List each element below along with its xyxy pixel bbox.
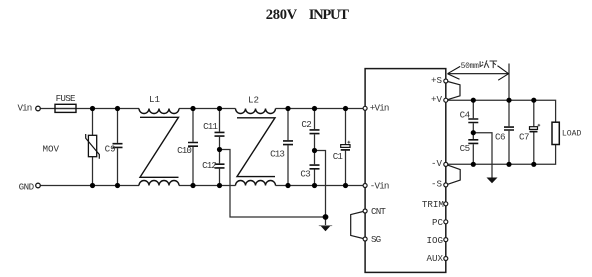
svg-text:C13: C13 [270, 149, 284, 160]
svg-text:+Vin: +Vin [370, 102, 389, 113]
svg-text:50mm: 50mm [461, 62, 480, 71]
svg-text:SG: SG [371, 234, 381, 245]
svg-text:C5: C5 [460, 143, 470, 154]
svg-text:280V: 280V [266, 7, 298, 23]
svg-text:MOV: MOV [42, 143, 59, 154]
svg-text:CNT: CNT [371, 206, 386, 217]
svg-text:L2: L2 [248, 95, 259, 106]
svg-text:FUSE: FUSE [56, 93, 76, 104]
svg-text:C2: C2 [301, 119, 311, 130]
svg-text:C6: C6 [495, 131, 505, 142]
svg-text:AUX: AUX [426, 253, 443, 264]
svg-text:PC: PC [432, 217, 444, 228]
svg-text:C12: C12 [202, 160, 216, 171]
svg-text:C1: C1 [333, 151, 344, 162]
svg-text:IOG: IOG [426, 235, 443, 246]
svg-text:C7: C7 [519, 131, 529, 142]
svg-text:-V: -V [431, 158, 443, 169]
svg-text:-S: -S [431, 178, 443, 189]
svg-text:+S: +S [431, 75, 443, 86]
svg-text:-Vin: -Vin [370, 181, 389, 192]
svg-text:C4: C4 [460, 109, 471, 120]
svg-text:L1: L1 [149, 94, 161, 105]
svg-text:C10: C10 [177, 145, 191, 156]
svg-text:C9: C9 [105, 143, 116, 154]
svg-text:INPUT: INPUT [309, 7, 349, 23]
svg-text:LOAD: LOAD [562, 130, 582, 139]
svg-text:C3: C3 [300, 168, 310, 179]
svg-text:TRIM: TRIM [422, 199, 444, 210]
svg-text:C11: C11 [203, 121, 218, 132]
svg-text:+V: +V [431, 94, 443, 105]
svg-text:GND: GND [19, 182, 35, 193]
svg-text:Vin: Vin [18, 103, 32, 114]
